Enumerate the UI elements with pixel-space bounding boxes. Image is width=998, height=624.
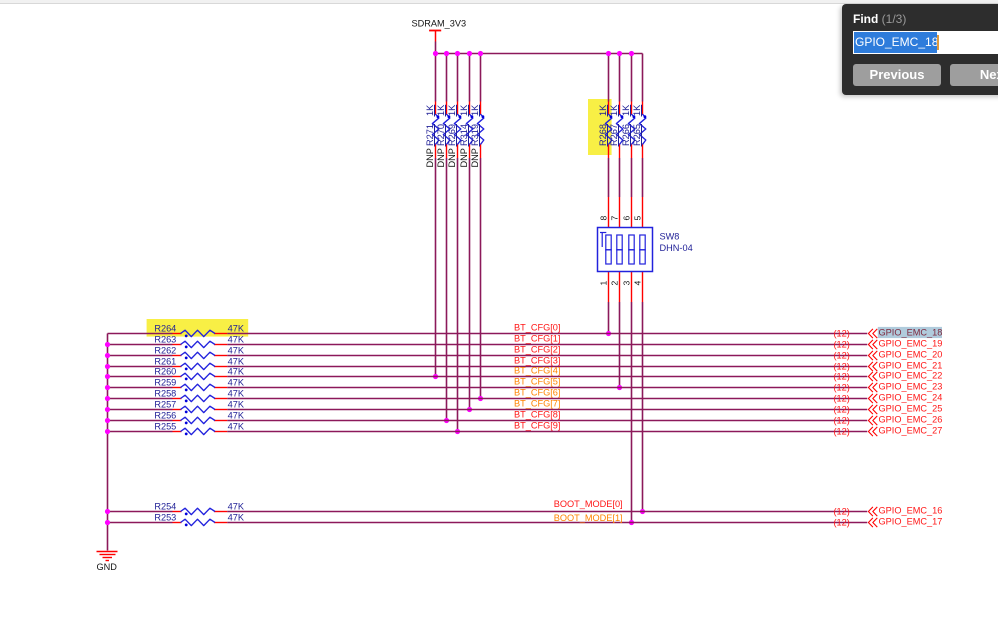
svg-text:SW8: SW8 bbox=[660, 232, 680, 242]
svg-text:GPIO_EMC_16: GPIO_EMC_16 bbox=[879, 505, 943, 515]
svg-text:R263: R263 bbox=[154, 335, 176, 345]
SW8 pin lead top 7 bbox=[619, 197, 621, 228]
junction R314 top bbox=[467, 51, 472, 56]
svg-text:47K: 47K bbox=[228, 324, 245, 334]
wire row R258 right bbox=[227, 398, 867, 400]
junction R268 top bbox=[606, 51, 611, 56]
svg-text:BT_CFG[0]: BT_CFG[0] bbox=[514, 322, 560, 332]
svg-text:(12): (12) bbox=[833, 383, 849, 393]
wire R268 to SW8 pin bbox=[608, 158, 610, 197]
svg-text:4: 4 bbox=[632, 281, 642, 286]
wire bus to R270 bbox=[446, 54, 448, 102]
resistor R319 1K (DNP) bbox=[470, 102, 484, 168]
svg-text:BOOT_MODE[1]: BOOT_MODE[1] bbox=[554, 513, 623, 523]
resistor R260 47K bbox=[154, 367, 244, 381]
resistor R255 47K bbox=[154, 422, 244, 436]
junction left bus R254 bbox=[105, 509, 110, 514]
junction SW8 pin 3 bottom bbox=[629, 520, 634, 525]
svg-text:6: 6 bbox=[621, 216, 631, 221]
svg-text:47K: 47K bbox=[228, 422, 245, 432]
svg-text:R270: R270 bbox=[436, 124, 446, 146]
svg-text:BOOT_MODE[0]: BOOT_MODE[0] bbox=[554, 499, 623, 509]
wire top bus SDRAM_3V3 bbox=[436, 53, 643, 55]
junction left bus row 5 bbox=[105, 385, 110, 390]
junction left bus row 1 bbox=[105, 342, 110, 347]
svg-text:GPIO_EMC_22: GPIO_EMC_22 bbox=[879, 370, 943, 380]
svg-text:(12): (12) bbox=[833, 329, 849, 339]
off-page connector chevron bbox=[868, 383, 877, 392]
svg-text:47K: 47K bbox=[228, 357, 245, 367]
svg-text:DNP: DNP bbox=[425, 148, 435, 167]
junction left bus row 6 bbox=[105, 396, 110, 401]
wire row R259 right bbox=[227, 387, 867, 389]
svg-text:BT_CFG[7]: BT_CFG[7] bbox=[514, 398, 560, 408]
wire row R255 right bbox=[227, 431, 867, 433]
svg-text:(12): (12) bbox=[833, 394, 849, 404]
svg-text:SDRAM_3V3: SDRAM_3V3 bbox=[411, 18, 466, 28]
junction left bus row 2 bbox=[105, 353, 110, 358]
resistor R267 1K bbox=[609, 102, 623, 159]
wire row R254 right bbox=[227, 511, 867, 513]
off-page connector chevron bbox=[868, 427, 877, 436]
junction R314 bottom bbox=[467, 407, 472, 412]
wire row R253 left bbox=[108, 522, 173, 524]
highlight yellow box R264 bbox=[147, 319, 249, 337]
svg-text:R269: R269 bbox=[447, 124, 457, 146]
svg-text:(12): (12) bbox=[833, 427, 849, 437]
svg-text:R254: R254 bbox=[154, 502, 176, 512]
svg-text:BT_CFG[4]: BT_CFG[4] bbox=[514, 365, 560, 375]
resistor R271 1K (DNP) bbox=[425, 102, 439, 168]
wire bus to R314 bbox=[469, 54, 471, 102]
wire row R262 right bbox=[227, 355, 867, 357]
junction R270 bottom bbox=[444, 418, 449, 423]
resistor R266 1K bbox=[621, 102, 635, 159]
svg-text:GPIO_EMC_17: GPIO_EMC_17 bbox=[879, 516, 943, 526]
junction left bus row 3 bbox=[105, 364, 110, 369]
svg-text:1K: 1K bbox=[470, 104, 480, 116]
SW8 pin lead bottom 2 bbox=[619, 272, 621, 303]
svg-text:R267: R267 bbox=[609, 124, 619, 146]
wire row R262 left bbox=[108, 355, 173, 357]
svg-text:1K: 1K bbox=[598, 104, 608, 116]
wire bus to R266 bbox=[631, 54, 633, 102]
svg-text:GPIO_EMC_21: GPIO_EMC_21 bbox=[879, 360, 943, 370]
resistor R270 1K (DNP) bbox=[436, 102, 450, 168]
wire R271 down to row bbox=[435, 158, 437, 377]
svg-text:(12): (12) bbox=[833, 372, 849, 382]
svg-text:(12): (12) bbox=[833, 518, 849, 528]
svg-text:47K: 47K bbox=[228, 389, 245, 399]
wire R319 down to row bbox=[480, 158, 482, 399]
off-page connector chevron bbox=[868, 340, 877, 349]
resistor R314 1K (DNP) bbox=[459, 102, 473, 168]
wire bus to R269 bbox=[457, 54, 459, 102]
wire R266 to SW8 pin bbox=[631, 158, 633, 197]
svg-text:(12): (12) bbox=[833, 340, 849, 350]
svg-text:BT_CFG[3]: BT_CFG[3] bbox=[514, 355, 560, 365]
SW8 pin lead bottom 3 bbox=[631, 272, 633, 303]
resistor R263 47K bbox=[154, 335, 244, 349]
wire bus to R271 bbox=[435, 54, 437, 102]
wire row R253 right bbox=[227, 522, 867, 524]
wire power to bus bbox=[435, 42, 437, 54]
junction R271 top bbox=[433, 51, 438, 56]
svg-text:BT_CFG[2]: BT_CFG[2] bbox=[514, 344, 560, 354]
off-page connector chevron bbox=[868, 405, 877, 414]
svg-text:R314: R314 bbox=[459, 124, 469, 146]
off-page connector chevron bbox=[868, 329, 877, 338]
junction R319 bottom bbox=[478, 396, 483, 401]
svg-text:R319: R319 bbox=[470, 124, 480, 146]
resistor R258 47K bbox=[154, 389, 244, 403]
svg-text:R268: R268 bbox=[598, 124, 608, 146]
junction left bus row 7 bbox=[105, 407, 110, 412]
svg-text:8: 8 bbox=[598, 216, 608, 221]
junction left bus row 8 bbox=[105, 418, 110, 423]
wire bus to R268 bbox=[608, 54, 610, 102]
wire R265 to SW8 pin bbox=[642, 158, 644, 197]
svg-text:R271: R271 bbox=[425, 124, 435, 146]
svg-text:GPIO_EMC_27: GPIO_EMC_27 bbox=[879, 425, 943, 435]
svg-text:47K: 47K bbox=[228, 367, 245, 377]
svg-text:DNP: DNP bbox=[470, 148, 480, 167]
svg-text:DNP: DNP bbox=[459, 148, 469, 167]
wire row R257 left bbox=[108, 409, 173, 411]
svg-text:47K: 47K bbox=[228, 378, 245, 388]
wire bus to R265 bbox=[642, 54, 644, 102]
svg-text:GPIO_EMC_23: GPIO_EMC_23 bbox=[879, 381, 943, 391]
svg-text:(12): (12) bbox=[833, 405, 849, 415]
wire R267 to SW8 pin bbox=[619, 158, 621, 197]
SW8 pin lead bottom 4 bbox=[642, 272, 644, 303]
svg-text:R261: R261 bbox=[154, 357, 176, 367]
resistor R262 47K bbox=[154, 346, 244, 360]
svg-text:R255: R255 bbox=[154, 422, 176, 432]
svg-text:(12): (12) bbox=[833, 416, 849, 426]
svg-text:R264: R264 bbox=[154, 324, 176, 334]
wire row R259 left bbox=[108, 387, 173, 389]
wire row R255 left bbox=[108, 431, 173, 433]
svg-text:1K: 1K bbox=[621, 104, 631, 116]
svg-text:5: 5 bbox=[632, 216, 642, 221]
svg-text:47K: 47K bbox=[228, 411, 245, 421]
svg-text:R258: R258 bbox=[154, 389, 176, 399]
svg-text:(12): (12) bbox=[833, 351, 849, 361]
junction SW8 pin 4 bottom bbox=[640, 509, 645, 514]
svg-text:GPIO_EMC_18: GPIO_EMC_18 bbox=[879, 327, 943, 337]
wire SW8 pin 2 down bbox=[619, 302, 621, 388]
resistor R261 47K bbox=[154, 357, 244, 371]
wire SW8 pin 3 down bbox=[631, 302, 633, 523]
svg-text:1K: 1K bbox=[609, 104, 619, 116]
svg-text:R260: R260 bbox=[154, 367, 176, 377]
junction R269 top bbox=[455, 51, 460, 56]
wire row R254 left bbox=[108, 511, 173, 513]
svg-text:47K: 47K bbox=[228, 513, 245, 523]
wire row R257 right bbox=[227, 409, 867, 411]
resistor R257 47K bbox=[154, 400, 244, 414]
wire R269 down to row bbox=[457, 158, 459, 432]
wire row R264 right bbox=[227, 333, 867, 335]
wire row R256 left bbox=[108, 420, 173, 422]
svg-text:1K: 1K bbox=[447, 104, 457, 116]
svg-text:47K: 47K bbox=[228, 502, 245, 512]
highlight yellow box R268 bbox=[588, 99, 612, 155]
wire row R263 right bbox=[227, 344, 867, 346]
svg-text:47K: 47K bbox=[228, 335, 245, 345]
off-page connector chevron bbox=[868, 362, 877, 371]
resistor R265 1K bbox=[632, 102, 646, 159]
svg-text:DNP: DNP bbox=[436, 148, 446, 167]
junction left bus R253 bbox=[105, 520, 110, 525]
svg-text:7: 7 bbox=[609, 216, 619, 221]
wire row R256 right bbox=[227, 420, 867, 422]
resistor R268 1K bbox=[598, 102, 612, 159]
resistor R256 47K bbox=[154, 411, 244, 425]
svg-text:R253: R253 bbox=[154, 513, 176, 523]
svg-text:GPIO_EMC_20: GPIO_EMC_20 bbox=[879, 349, 943, 359]
wire row R263 left bbox=[108, 344, 173, 346]
ground GND bbox=[96, 552, 117, 573]
resistor R254 47K bbox=[154, 502, 244, 516]
svg-text:GPIO_EMC_24: GPIO_EMC_24 bbox=[879, 392, 943, 402]
off-page connector chevron bbox=[868, 507, 877, 516]
svg-text:1K: 1K bbox=[425, 104, 435, 116]
svg-text:R256: R256 bbox=[154, 411, 176, 421]
wire row R258 left bbox=[108, 398, 173, 400]
junction left bus row 9 bbox=[105, 429, 110, 434]
top toolbar strip bbox=[0, 0, 998, 4]
wire SW8 pin 4 down bbox=[642, 302, 644, 512]
svg-text:GPIO_EMC_26: GPIO_EMC_26 bbox=[879, 414, 943, 424]
wire bus to R267 bbox=[619, 54, 621, 102]
wire SW8 pin 1 down bbox=[608, 302, 610, 334]
svg-text:2: 2 bbox=[609, 281, 619, 286]
svg-text:BT_CFG[6]: BT_CFG[6] bbox=[514, 387, 560, 397]
svg-text:R265: R265 bbox=[632, 124, 642, 146]
resistor R253 47K bbox=[154, 513, 244, 527]
junction R270 top bbox=[444, 51, 449, 56]
junction R266 top bbox=[629, 51, 634, 56]
svg-text:1: 1 bbox=[598, 281, 608, 286]
wire left vertical bus bbox=[107, 334, 109, 551]
svg-text:GND: GND bbox=[96, 562, 117, 572]
SW8 pin lead top 6 bbox=[631, 197, 633, 228]
off-page connector chevron bbox=[868, 518, 877, 527]
svg-text:47K: 47K bbox=[228, 400, 245, 410]
find dialog bbox=[842, 4, 998, 95]
svg-text:DHN-04: DHN-04 bbox=[660, 243, 693, 253]
svg-text:3: 3 bbox=[621, 281, 631, 286]
off-page connector chevron bbox=[868, 394, 877, 403]
highlight selection GPIO_EMC_18 bbox=[878, 327, 942, 338]
junction left bus row 4 bbox=[105, 374, 110, 379]
SW8 pin lead top 5 bbox=[642, 197, 644, 228]
junction SW8 pin 2 bottom bbox=[617, 385, 622, 390]
off-page connector chevron bbox=[868, 372, 877, 381]
svg-text:BT_CFG[1]: BT_CFG[1] bbox=[514, 333, 560, 343]
svg-text:(12): (12) bbox=[833, 507, 849, 517]
junction R271 bottom bbox=[433, 374, 438, 379]
svg-text:1K: 1K bbox=[436, 104, 446, 116]
wire row R260 left bbox=[108, 376, 173, 378]
SW8 pin lead top 8 bbox=[608, 197, 610, 228]
power net SDRAM_3V3 bbox=[411, 18, 466, 41]
svg-text:BT_CFG[9]: BT_CFG[9] bbox=[514, 420, 560, 430]
svg-text:1K: 1K bbox=[632, 104, 642, 116]
wire row R261 left bbox=[108, 366, 173, 368]
wire R314 down to row bbox=[469, 158, 471, 410]
svg-text:GPIO_EMC_19: GPIO_EMC_19 bbox=[879, 338, 943, 348]
svg-text:BT_CFG[5]: BT_CFG[5] bbox=[514, 376, 560, 386]
svg-text:R262: R262 bbox=[154, 346, 176, 356]
resistor R259 47K bbox=[154, 378, 244, 392]
svg-text:(12): (12) bbox=[833, 362, 849, 372]
wire bus to R319 bbox=[480, 54, 482, 102]
svg-text:R266: R266 bbox=[621, 124, 631, 146]
resistor R269 1K (DNP) bbox=[447, 102, 461, 168]
junction R269 bottom bbox=[455, 429, 460, 434]
svg-text:R259: R259 bbox=[154, 378, 176, 388]
svg-text:R257: R257 bbox=[154, 400, 176, 410]
SW8 pin lead bottom 1 bbox=[608, 272, 610, 303]
svg-text:GPIO_EMC_25: GPIO_EMC_25 bbox=[879, 403, 943, 413]
off-page connector chevron bbox=[868, 351, 877, 360]
svg-text:DNP: DNP bbox=[447, 148, 457, 167]
svg-text:BT_CFG[8]: BT_CFG[8] bbox=[514, 409, 560, 419]
svg-text:1K: 1K bbox=[459, 104, 469, 116]
junction R319 top bbox=[478, 51, 483, 56]
wire row R261 right bbox=[227, 366, 867, 368]
off-page connector chevron bbox=[868, 416, 877, 425]
resistor R264 47K bbox=[154, 324, 244, 338]
wire R270 down to row bbox=[446, 158, 448, 421]
svg-text:47K: 47K bbox=[228, 346, 245, 356]
wire row R264 left bbox=[108, 333, 173, 335]
switch SW8 DHN-04 body bbox=[598, 228, 653, 272]
junction SW8 pin 1 bottom bbox=[606, 331, 611, 336]
wire row R260 right bbox=[227, 376, 867, 378]
junction R267 top bbox=[617, 51, 622, 56]
